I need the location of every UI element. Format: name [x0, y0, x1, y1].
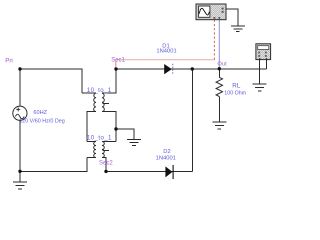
multimeter icon: [256, 44, 271, 60]
wire T1 secondary bottom lead: [102, 112, 116, 142]
ground (oscilloscope): [231, 26, 245, 32]
wire Sec1 output rail: [116, 68, 266, 70]
svg-text:1N4001: 1N4001: [156, 156, 176, 162]
wire T2 primary top lead: [87, 141, 96, 143]
wire T1 center tap stub: [103, 103, 110, 105]
wire multimeter ground lead: [259, 60, 261, 84]
node Sec2 junction dot: [104, 170, 107, 173]
node source-return junction dot: [18, 170, 21, 173]
wire Sec2 to D2 rail: [106, 170, 192, 172]
wire multimeter positive lead: [265, 60, 267, 70]
svg-text:Out: Out: [217, 61, 227, 67]
wire oscilloscope ground lead: [226, 9, 238, 26]
wire T2 primary bottom lead: [87, 157, 96, 159]
transformer T1 10_to_1: [94, 93, 105, 111]
wire T2 secondary top lead: [102, 141, 116, 143]
wire T2 center tap stub: [103, 149, 110, 151]
svg-text:Pri: Pri: [5, 57, 13, 64]
svg-text:D2: D2: [163, 149, 170, 155]
ground (center tap): [127, 140, 141, 146]
node D2-Out junction dot: [191, 67, 194, 70]
wire resistor ground lead: [218, 97, 220, 122]
diode D2 1N4001: [165, 165, 173, 179]
wire source bottom lead: [19, 120, 21, 171]
wire T1 secondary top lead: [102, 69, 116, 93]
wire center tap to ground: [116, 129, 134, 139]
svg-text:10_to_1: 10_to_1: [87, 87, 112, 94]
node Out junction dot: [218, 67, 221, 70]
wire bottom return rail: [20, 158, 87, 172]
wire T1 primary top lead: [82, 92, 96, 94]
wire resistor top lead: [218, 69, 220, 77]
transformer T2 10_to_1: [94, 142, 105, 158]
wire red probe Sec1 to scope channel A (dashed): [116, 20, 215, 67]
oscilloscope icon: [196, 4, 226, 20]
resistor RL 100 Ohm: [216, 77, 222, 96]
svg-text:60HZ: 60HZ: [33, 110, 47, 116]
wire source ground lead: [19, 171, 21, 181]
diode D1 1N4001: [164, 64, 173, 75]
node Sec1 junction dot: [114, 67, 117, 70]
wire T2 secondary bottom lead: [102, 158, 106, 172]
svg-text:RL: RL: [232, 82, 241, 89]
ground (load resistor): [212, 122, 226, 129]
svg-text:120 V/60 Hz/0 Deg: 120 V/60 Hz/0 Deg: [19, 118, 65, 124]
wire T1 primary bottom lead: [87, 112, 96, 142]
ground (multimeter): [253, 84, 267, 91]
svg-text:Sec1: Sec1: [111, 58, 125, 64]
wire Pri top rail: [20, 69, 82, 93]
svg-text:100 Ohm: 100 Ohm: [224, 91, 246, 97]
svg-text:Sec2: Sec2: [99, 160, 113, 166]
node Pri junction dot: [18, 67, 21, 70]
ground (source): [13, 182, 27, 189]
AC source V1 120V 60Hz: [13, 106, 27, 120]
svg-text:10_to_1: 10_to_1: [87, 135, 112, 142]
wire D2 cathode riser: [191, 69, 193, 171]
wire blue probe Out to scope channel B: [218, 20, 220, 69]
wire source top lead: [19, 69, 21, 106]
svg-text:1N4001: 1N4001: [156, 49, 176, 55]
node center-tap junction dot: [114, 127, 117, 130]
